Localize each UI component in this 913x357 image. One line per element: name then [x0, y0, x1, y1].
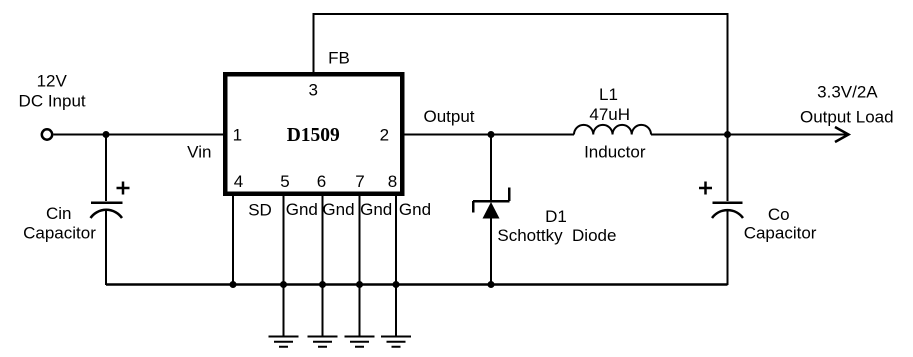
svg-text:Inductor: Inductor — [584, 143, 646, 162]
svg-text:3: 3 — [308, 81, 317, 100]
svg-text:4: 4 — [234, 172, 243, 191]
svg-text:Capacitor: Capacitor — [23, 224, 96, 243]
svg-text:Output: Output — [423, 107, 474, 126]
svg-text:47uH: 47uH — [589, 105, 630, 124]
svg-text:Gnd: Gnd — [360, 200, 392, 219]
svg-text:DC Input: DC Input — [19, 92, 86, 111]
svg-text:2: 2 — [380, 126, 389, 145]
svg-text:Co: Co — [768, 205, 790, 224]
svg-text:Cin: Cin — [46, 204, 72, 223]
svg-text:Gnd: Gnd — [322, 200, 354, 219]
svg-text:Vin: Vin — [187, 143, 211, 162]
svg-text:Schottky Diode: Schottky Diode — [497, 226, 616, 245]
svg-text:8: 8 — [388, 172, 397, 191]
svg-text:Output Load: Output Load — [800, 108, 894, 127]
svg-text:L1: L1 — [599, 85, 618, 104]
svg-text:3.3V/2A: 3.3V/2A — [817, 83, 878, 102]
svg-text:D1509: D1509 — [287, 125, 340, 146]
svg-text:Gnd: Gnd — [286, 200, 318, 219]
svg-text:1: 1 — [233, 126, 242, 145]
svg-text:7: 7 — [355, 172, 364, 191]
svg-text:SD: SD — [248, 201, 272, 220]
svg-text:6: 6 — [317, 172, 326, 191]
svg-text:D1: D1 — [545, 207, 567, 226]
svg-text:FB: FB — [328, 49, 350, 68]
svg-text:5: 5 — [280, 172, 289, 191]
svg-text:12V: 12V — [37, 72, 68, 91]
svg-text:Capacitor: Capacitor — [744, 224, 817, 243]
svg-text:Gnd: Gnd — [399, 200, 431, 219]
